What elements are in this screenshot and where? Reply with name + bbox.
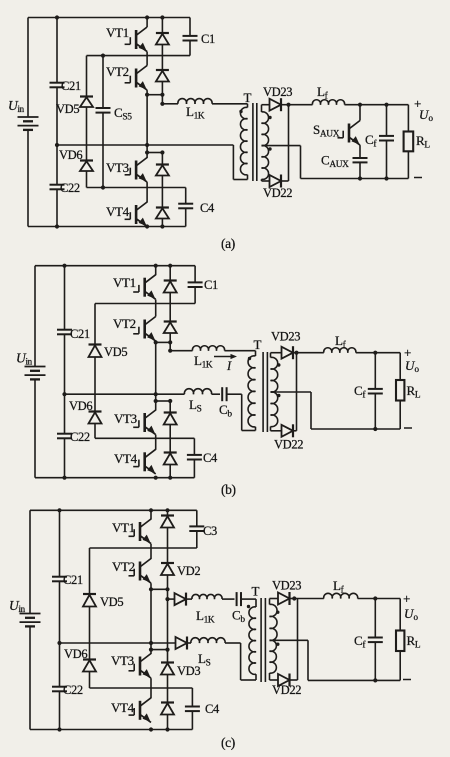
wire bottom rail (c) — [30, 729, 192, 731]
svg-text:VT4: VT4 — [114, 451, 138, 466]
node rectifier out (a) — [286, 103, 290, 107]
node bottom C22 (a) — [55, 224, 59, 228]
wire jumper mid (a) — [145, 150, 164, 154]
wire output return (a) — [301, 178, 409, 180]
svg-text:C1: C1 — [201, 32, 215, 46]
transformer T secondary (c) — [270, 599, 278, 681]
IGBT SAUX (a) — [313, 103, 362, 158]
label output plus (a) — [414, 96, 421, 111]
wire top rail (b) — [35, 265, 195, 267]
capacitor Cb (b) — [219, 387, 242, 419]
wire clamp bottom (b) — [95, 437, 194, 439]
inductor Lf (c) — [294, 578, 400, 599]
capacitor CAUX (a) — [321, 153, 368, 181]
transformer T secondary (b) — [271, 353, 278, 431]
transformer T primary (c) — [249, 584, 260, 681]
diode VD22 (c) — [270, 599, 302, 698]
wire emitter jumper (a) — [147, 94, 162, 96]
wire left rail (b) — [34, 266, 36, 478]
svg-text:C3: C3 — [203, 524, 217, 538]
phase dot secondary top (b) — [277, 363, 280, 366]
wire clamp bottom (c) — [90, 687, 193, 689]
diode series Ls (c) — [176, 637, 192, 650]
node collector VT1 (c) — [149, 508, 153, 512]
svg-text:(b): (b) — [221, 482, 236, 497]
IGBT VT4 (c) — [111, 698, 151, 723]
svg-text:C4: C4 — [205, 702, 220, 716]
svg-text:VT2: VT2 — [113, 316, 136, 331]
wire center tap (a) — [262, 146, 301, 179]
svg-text:VT1: VT1 — [112, 520, 135, 535]
capacitor C1 (a) — [183, 18, 215, 56]
node midpoint (b) — [62, 392, 66, 396]
label Uo (b) — [405, 358, 420, 374]
diode VD23 (c) — [270, 579, 302, 606]
node top C21 (a) — [55, 15, 59, 19]
svg-text:VT4: VT4 — [106, 204, 130, 219]
svg-text:VT3: VT3 — [114, 411, 137, 426]
diode D3 antiparallel VT3 (b) — [164, 401, 177, 453]
svg-text:C22: C22 — [70, 430, 90, 444]
node midpoint (c) — [57, 641, 61, 645]
node rectifier out (b) — [294, 351, 298, 355]
node leg mid (a) — [145, 143, 149, 147]
capacitor Cb (c) — [232, 592, 256, 625]
svg-text:VD22: VD22 — [263, 186, 292, 200]
diode D4 antiparallel VT4 (a) — [156, 208, 169, 229]
phase dot secondary top (c) — [276, 611, 279, 614]
diode D4 antiparallel VT4 (b) — [164, 453, 177, 480]
svg-text:C1: C1 — [204, 278, 218, 292]
diode VD6 (c) — [64, 647, 96, 688]
diode VD6 (b) — [69, 399, 102, 438]
svg-text:VD23: VD23 — [272, 579, 301, 593]
IGBT VT2 (b) — [113, 316, 156, 341]
wire VT2 emitter (a) — [145, 90, 149, 97]
svg-text:VD5: VD5 — [56, 102, 79, 116]
wire bottom rail (b) — [35, 477, 194, 479]
svg-text:in: in — [19, 604, 26, 614]
diode series L1K (c) — [168, 593, 193, 606]
wire clamp top (a) — [87, 55, 191, 57]
IGBT VT2 (c) — [112, 559, 151, 584]
capacitor C21 (c) — [52, 510, 83, 643]
phase dot secondary mid (b) — [277, 394, 280, 397]
capacitor C22 (b) — [57, 394, 90, 478]
label output plus (c) — [403, 591, 410, 606]
battery Uin (b) — [16, 351, 46, 380]
wire left rail (c) — [29, 510, 31, 729]
svg-text:VD5: VD5 — [100, 595, 123, 609]
wire emitter jumper (b) — [156, 340, 173, 344]
node top C21 (b) — [62, 264, 66, 268]
wire bottom rail (a) — [28, 226, 186, 228]
wire VT2-VT3 lead (c) — [150, 589, 152, 654]
diode VD22 (a) — [262, 105, 293, 200]
node L1K tap (b) — [168, 342, 172, 352]
IGBT VT4 (a) — [106, 202, 147, 227]
node VT4 emitter (c) — [149, 727, 153, 731]
diode VD5 (b) — [89, 304, 128, 412]
node bottom C22 (c) — [57, 727, 61, 731]
node collector VT1 (a) — [145, 15, 149, 19]
capacitor C4 (a) — [178, 188, 215, 227]
svg-text:C22: C22 — [60, 181, 80, 195]
phase dot secondary top (a) — [268, 116, 271, 119]
svg-text:VD22: VD22 — [274, 438, 303, 452]
diode D1 antiparallel VT1 (c) — [161, 508, 174, 563]
wire primary bottom (b) — [242, 394, 256, 430]
node rectifier out (c) — [292, 596, 296, 600]
wire VT3-VT4 (a) — [146, 182, 148, 202]
transformer T primary (b) — [248, 337, 261, 431]
wire VT4 emitter (a) — [145, 224, 149, 228]
transformer core (a) — [253, 103, 257, 181]
svg-text:VT4: VT4 — [111, 700, 135, 715]
node collector VT1 (b) — [154, 264, 158, 268]
node L1K tap (c) — [165, 589, 169, 649]
inductor L1K (b) — [170, 346, 255, 371]
capacitor Cf (c) — [354, 596, 383, 682]
label output minus (a) — [414, 177, 422, 179]
svg-text:VT1: VT1 — [113, 275, 136, 290]
svg-text:C22: C22 — [63, 683, 83, 697]
label Uo (a) — [419, 107, 434, 123]
svg-text:C21: C21 — [70, 327, 90, 341]
wire VT3-VT4 (b) — [155, 435, 157, 450]
diode VD6 (a) — [59, 148, 93, 188]
IGBT VT2 (a) — [106, 64, 147, 90]
wire top rail (a) — [28, 17, 190, 19]
svg-text:VT1: VT1 — [106, 25, 129, 40]
svg-text:VD5: VD5 — [104, 345, 127, 359]
transformer core (c) — [261, 598, 265, 682]
node VT4 emitter (b) — [154, 476, 158, 480]
wire VT1-VT2 (b) — [155, 300, 157, 317]
svg-text:C4: C4 — [203, 451, 218, 465]
svg-text:VD6: VD6 — [69, 399, 92, 413]
caption (b) — [221, 482, 236, 497]
wire clamp top (b) — [95, 303, 195, 305]
IGBT VT1 (a) — [106, 18, 147, 52]
svg-text:T: T — [254, 337, 262, 352]
transformer core (b) — [263, 352, 267, 432]
wire clamp bottom (a) — [87, 187, 186, 189]
phase dot primary (a) — [239, 110, 242, 113]
capacitor C21 (b) — [57, 266, 90, 395]
svg-text:VT2: VT2 — [112, 559, 135, 574]
wire VT1-VT2 (a) — [146, 52, 148, 66]
diode D1 antiparallel VT1 (a) — [156, 15, 169, 70]
svg-text:VD23: VD23 — [263, 85, 292, 99]
resistor RL (a) — [404, 105, 431, 179]
label Uo (c) — [404, 606, 419, 622]
svg-text:C21: C21 — [61, 79, 81, 93]
inductor L1K (a) — [162, 99, 247, 122]
node L1K tap (a) — [160, 95, 164, 106]
svg-text:VD6: VD6 — [64, 647, 87, 661]
wire VT2-VT3 lead (a) — [146, 95, 148, 158]
wire mid horizontal (c) — [60, 642, 176, 644]
inductor Ls (c) — [191, 638, 241, 669]
svg-text:VD23: VD23 — [271, 330, 300, 344]
capacitor CS5 (a) — [96, 54, 133, 190]
capacitor C4 (c) — [185, 688, 220, 730]
wire VT1-VT2 (c) — [150, 544, 152, 559]
node bottom C22 (b) — [62, 476, 66, 480]
diode D2 antiparallel VT2 (a) — [156, 70, 169, 97]
diode VD2 antiparallel VT2 (c) — [161, 563, 200, 589]
wire VT2 emitter (b) — [154, 340, 158, 344]
inductor Lf (b) — [297, 333, 401, 353]
diode D1 antiparallel VT1 (b) — [164, 264, 177, 322]
wire primary bottom (c) — [241, 643, 256, 680]
svg-text:in: in — [18, 104, 25, 114]
capacitor C22 (a) — [50, 145, 80, 227]
wire VT2-VT3 lead (b) — [155, 342, 157, 410]
svg-text:VD22: VD22 — [272, 683, 301, 697]
IGBT VT1 (b) — [113, 266, 156, 300]
phase dot secondary mid (a) — [268, 147, 271, 150]
svg-text:T: T — [252, 584, 260, 599]
caption (c) — [221, 735, 235, 750]
label output minus (b) — [404, 427, 412, 429]
diode VD22 (b) — [271, 353, 304, 452]
wire center tap (c) — [270, 640, 401, 680]
label output minus (c) — [403, 679, 411, 681]
svg-text:VT3: VT3 — [111, 653, 134, 668]
svg-text:VT2: VT2 — [106, 64, 129, 79]
wire clamp top (c) — [90, 547, 197, 549]
wire emitter jumper (c) — [151, 587, 170, 591]
resistor RL (c) — [396, 599, 421, 681]
diode D2 antiparallel VT2 (b) — [164, 322, 177, 343]
svg-text:VD6: VD6 — [59, 148, 82, 162]
inductor L1K (c) — [192, 594, 235, 625]
phase dot secondary mid (c) — [276, 643, 279, 646]
wire center tap (b) — [271, 392, 401, 429]
svg-text:(c): (c) — [221, 735, 235, 750]
phase dot primary (c) — [247, 605, 250, 608]
transformer T secondary (a) — [262, 105, 269, 181]
IGBT VT1 (c) — [112, 510, 151, 543]
phase dot primary (b) — [248, 357, 251, 360]
label output plus (b) — [404, 345, 411, 360]
wire VT3-VT4 (c) — [150, 678, 152, 698]
wire top rail (c) — [30, 509, 197, 511]
wire mid horizontal (a) — [57, 144, 233, 146]
IGBT VT3 (b) — [114, 410, 156, 435]
wire jumper mid (c) — [149, 648, 170, 652]
node leg mid (c) — [149, 641, 153, 645]
inductor Lf (a) — [289, 84, 409, 105]
IGBT VT4 (b) — [114, 449, 156, 474]
node top C21 (c) — [57, 508, 61, 512]
svg-text:VD2: VD2 — [177, 564, 200, 578]
resistor RL (b) — [396, 353, 421, 429]
caption (a) — [221, 236, 235, 251]
diode VD23 (a) — [262, 85, 293, 111]
wire jumper mid (b) — [154, 399, 173, 403]
diode VD5 (c) — [83, 548, 123, 660]
node midpoint (a) — [55, 143, 59, 147]
capacitor Cf (a) — [365, 103, 394, 181]
capacitor C1 (b) — [188, 266, 218, 304]
svg-text:in: in — [26, 357, 33, 367]
svg-text:C21: C21 — [63, 573, 83, 587]
battery Uin (a) — [8, 98, 39, 130]
capacitor C22 (c) — [52, 643, 83, 730]
svg-text:(a): (a) — [221, 236, 235, 251]
svg-text:T: T — [244, 90, 252, 105]
svg-text:+: + — [403, 591, 410, 606]
inductor Ls (b) — [184, 389, 220, 415]
svg-text:VD3: VD3 — [177, 664, 200, 678]
capacitor C3 (c) — [189, 510, 217, 548]
capacitor Cf (b) — [354, 351, 383, 432]
current arrow I (b) — [214, 354, 237, 373]
IGBT VT3 (a) — [106, 158, 147, 183]
battery Uin (c) — [9, 598, 41, 626]
diode VD5 (a) — [56, 56, 93, 161]
wire left rail (a) — [27, 18, 29, 227]
capacitor C4 (b) — [187, 438, 218, 477]
IGBT VT3 (c) — [111, 653, 151, 678]
node leg mid (b) — [154, 392, 158, 396]
diode VD3 antiparallel VT3 (c) — [161, 650, 200, 703]
wire mid horizontal (b) — [65, 393, 185, 395]
transformer T primary (a) — [233, 90, 251, 180]
wire VT2 emitter (c) — [149, 583, 153, 591]
diode D4 antiparallel VT4 (c) — [161, 703, 174, 732]
svg-text:VT3: VT3 — [106, 160, 129, 175]
svg-text:C4: C4 — [200, 201, 215, 215]
capacitor C21 (a) — [50, 18, 81, 146]
diode D3 antiparallel VT3 (a) — [156, 153, 169, 208]
diode VD23 (b) — [271, 330, 301, 360]
